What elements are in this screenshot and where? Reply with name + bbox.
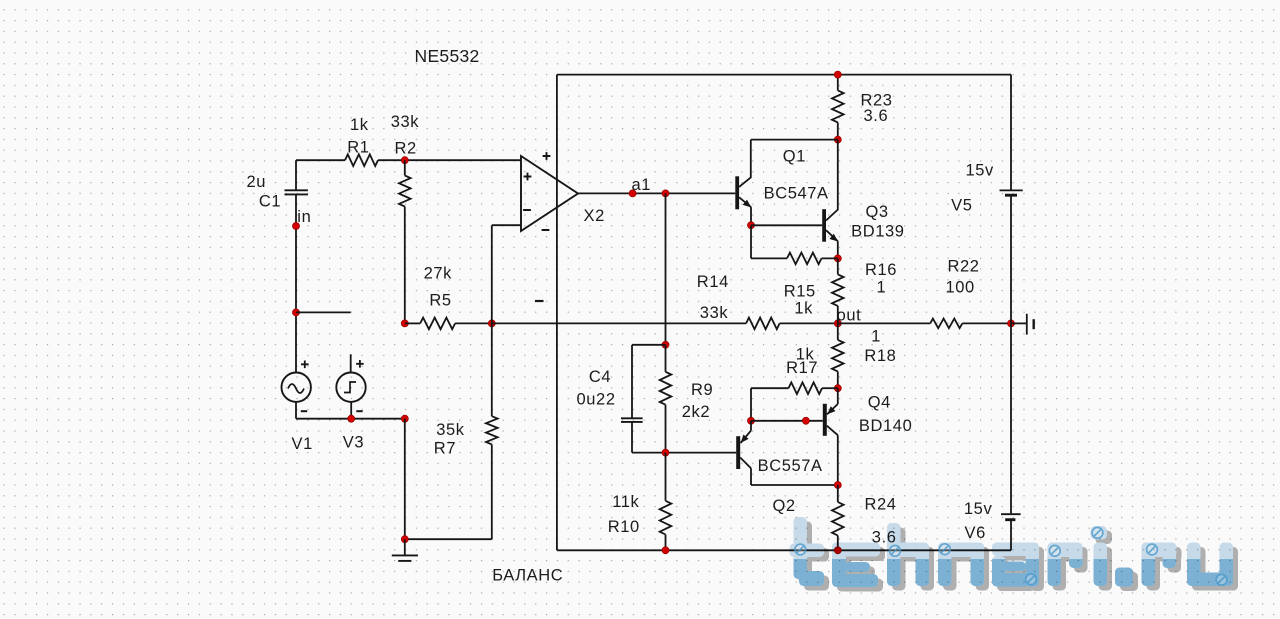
transistor Q4 base bar	[823, 404, 827, 436]
resistor R14	[746, 318, 780, 330]
node R2/R5	[401, 320, 408, 327]
resistor R22	[930, 319, 962, 329]
wire R5 left lead	[405, 322, 420, 324]
wire R23 bottom lead	[837, 122, 839, 139]
plus of V3	[356, 360, 364, 368]
label BALANS	[492, 567, 563, 585]
label V1	[292, 435, 313, 453]
wire Q3 emitter down	[837, 241, 839, 258]
label a1	[632, 176, 652, 194]
wire R17 left vertical	[750, 388, 752, 421]
label R18	[864, 347, 896, 365]
node R22/right rail	[1008, 320, 1015, 327]
svg-text:R7: R7	[434, 440, 456, 458]
label 27k R5	[424, 264, 453, 282]
label 35k R7	[436, 421, 465, 439]
node in	[293, 223, 300, 230]
node R23/Q1 collector	[834, 136, 841, 143]
wire stub to V3	[296, 311, 351, 313]
svg-text:C1: C1	[259, 193, 281, 211]
svg-text:V3: V3	[343, 434, 364, 452]
label C4	[589, 368, 611, 386]
svg-text:V6: V6	[965, 524, 986, 542]
battery V5	[1000, 190, 1023, 195]
wire R15 left lead	[751, 257, 787, 259]
op-amp plus power label	[543, 152, 551, 160]
wire R5 right lead	[455, 322, 492, 324]
node C4/R9 top	[662, 341, 669, 348]
svg-text:R24: R24	[865, 496, 897, 514]
label 33k R2	[391, 113, 420, 131]
node R1/R2 junction	[401, 157, 408, 164]
wire R22 to rail	[962, 322, 1011, 324]
wire V3 plus stub	[350, 354, 352, 372]
wire Q2 collector down	[750, 468, 752, 485]
wire minus input horizontal	[492, 224, 521, 226]
svg-text:R15: R15	[784, 283, 816, 301]
svg-text:R22: R22	[948, 258, 980, 276]
svg-text:R1: R1	[347, 138, 369, 156]
Q2 collector	[740, 458, 751, 469]
svg-text:1k: 1k	[794, 299, 813, 317]
svg-text:0u22: 0u22	[577, 391, 616, 409]
svg-text:X2: X2	[584, 207, 605, 225]
ground symbol	[392, 539, 418, 561]
label out	[837, 307, 862, 325]
wire R7 bottom lead	[491, 444, 493, 539]
svg-text:33k: 33k	[700, 304, 729, 322]
label 2k2	[682, 403, 710, 421]
label V5	[951, 197, 972, 215]
node V-source top	[293, 309, 300, 316]
svg-text:2u: 2u	[247, 173, 267, 191]
wire Q3 base	[751, 224, 822, 226]
wire top supply rail	[557, 74, 1011, 76]
svg-text:BD139: BD139	[851, 223, 904, 241]
node C4/R9 bottom Q2 base	[662, 449, 669, 456]
wire mid column	[404, 419, 406, 540]
Q3 emitter	[826, 230, 838, 241]
label 1k R17	[796, 346, 815, 364]
node on Q4 base wire	[802, 417, 809, 424]
wire Q2 emitter top	[750, 421, 752, 431]
svg-text:27k: 27k	[424, 264, 453, 282]
op-amp plus input label	[524, 173, 532, 181]
node output branch	[662, 190, 669, 197]
wire R23 top lead	[837, 75, 839, 91]
wire C4 top horizontal	[632, 344, 666, 346]
Q4 emitter	[827, 388, 838, 414]
label 15v V5	[966, 162, 995, 180]
node out	[834, 320, 841, 327]
source V1 sine	[282, 373, 311, 402]
wire sources bottom	[296, 418, 405, 420]
resistor R2 vertical	[399, 176, 411, 207]
label BC547A	[764, 185, 829, 203]
label 1 R16	[877, 279, 887, 297]
label in	[297, 208, 311, 226]
label R5	[429, 291, 451, 309]
label Q4	[868, 394, 891, 412]
wire Q4 base	[751, 420, 823, 422]
label Q2	[773, 497, 796, 515]
label R16	[865, 261, 897, 279]
label 0u22	[577, 391, 616, 409]
op-amp minus input label	[523, 209, 531, 211]
svg-text:in: in	[297, 208, 311, 226]
wire bottom supply rail	[557, 549, 1011, 551]
wire to output port	[1011, 322, 1026, 324]
resistor R5	[420, 318, 455, 330]
wire left box edge	[556, 75, 558, 551]
svg-text:35k: 35k	[436, 421, 465, 439]
label R7	[434, 440, 456, 458]
output port symbol	[1027, 314, 1034, 335]
Q4 collector	[827, 426, 838, 436]
wire R24 top lead	[837, 485, 839, 502]
node rail/R23	[834, 71, 841, 78]
node R10/bottom rail	[662, 547, 669, 554]
svg-text:C4: C4	[589, 368, 611, 386]
svg-text:BD140: BD140	[859, 417, 912, 435]
watermark no-symbols	[795, 527, 1227, 585]
svg-text:Q4: Q4	[868, 394, 891, 412]
svg-text:V5: V5	[951, 197, 972, 215]
node Q2/Q4 collectors R24	[834, 482, 841, 489]
resistor R10 vertical	[660, 501, 672, 535]
floating minus label	[535, 300, 544, 302]
wire R17 right lead	[822, 387, 838, 389]
node R18/R17/Q4 emitter	[834, 385, 841, 392]
transistor Q2 base bar	[736, 436, 740, 469]
wire Q1 emitter down	[750, 207, 752, 225]
wire Q2 base	[666, 452, 737, 454]
svg-text:R17: R17	[786, 359, 818, 377]
watermark tehnari.ru letters	[790, 517, 1234, 587]
label Q1	[783, 148, 806, 166]
svg-text:NE5532: NE5532	[415, 46, 480, 66]
wire R16 bottom lead	[837, 306, 839, 324]
svg-text:R18: R18	[864, 347, 896, 365]
wire R2 bottom lead	[404, 207, 406, 324]
wire C1 top lead	[295, 160, 297, 190]
label BD140	[859, 417, 912, 435]
label R23	[861, 92, 893, 110]
wire right rail top	[1010, 75, 1012, 190]
label 3.6 R24	[872, 528, 897, 546]
node sources/ground column	[401, 415, 408, 422]
wire node to op-amp plus input	[405, 159, 521, 161]
wire R10 top lead	[665, 453, 667, 501]
svg-text:3.6: 3.6	[864, 107, 889, 125]
resistor R15	[787, 253, 822, 265]
wire R15 right lead	[822, 257, 838, 259]
wire R2 top lead	[404, 160, 406, 175]
label BD139	[851, 223, 904, 241]
svg-text:R5: R5	[429, 291, 451, 309]
node a1	[629, 190, 636, 197]
wire V6 to bottom rail	[1010, 521, 1012, 551]
wire output branch down	[665, 193, 667, 344]
op-amp minus power label	[542, 229, 550, 231]
svg-text:15v: 15v	[966, 162, 995, 180]
label X2	[584, 207, 605, 225]
wire V5 to R22 node	[1010, 196, 1012, 323]
resistor R9	[660, 372, 672, 405]
node R5/R7/minus-input	[488, 320, 495, 327]
wire C4 top lead	[631, 345, 633, 418]
capacitor C4	[621, 418, 643, 422]
svg-text:R16: R16	[865, 261, 897, 279]
wire Q1 collector to R23 node	[751, 139, 838, 141]
wire V1 bottom	[295, 402, 297, 419]
svg-text:15v: 15v	[964, 500, 993, 518]
resistor R1	[345, 154, 378, 166]
label C1	[259, 193, 281, 211]
wire Q2 collector to R24 node	[751, 484, 838, 486]
node Q1 emitter/Q3 base	[748, 222, 755, 229]
resistor R17	[789, 382, 823, 394]
label R17	[786, 359, 818, 377]
svg-text:R10: R10	[608, 518, 640, 536]
label 2u	[247, 173, 267, 191]
wire C4 bottom horizontal	[632, 452, 666, 454]
Q3 collector	[826, 140, 838, 221]
label 15v V6	[964, 500, 993, 518]
wire R18 bottom lead	[837, 371, 839, 388]
battery V6	[1001, 514, 1021, 520]
resistor R23	[832, 90, 844, 122]
svg-text:Q1: Q1	[783, 148, 806, 166]
node Q3 emitter/R15/R16	[834, 255, 841, 262]
wire right rail mid	[1010, 323, 1012, 513]
label R2	[395, 140, 417, 158]
label R14	[697, 273, 729, 291]
svg-text:БАЛАНС: БАЛАНС	[492, 567, 563, 585]
resistor R16	[832, 274, 844, 306]
minus of V1	[301, 410, 307, 412]
resistor R7 vertical	[486, 416, 498, 444]
plus of V1	[301, 361, 309, 369]
wire feedback to R14	[492, 322, 746, 324]
Q1 emitter	[739, 197, 751, 207]
label 3.6 R23	[864, 107, 889, 125]
node R24/bottom rail	[834, 547, 841, 554]
svg-text:R9: R9	[691, 381, 713, 399]
label R10	[608, 518, 640, 536]
label R22	[948, 258, 980, 276]
svg-text:11k: 11k	[612, 493, 639, 511]
wire minus input vertical	[491, 225, 493, 416]
svg-text:V1: V1	[292, 435, 313, 453]
svg-text:Q2: Q2	[773, 497, 796, 515]
label 11k	[612, 493, 639, 511]
wire R7 to ground node	[405, 538, 492, 540]
wire R10 bottom lead	[665, 535, 667, 551]
label R1	[347, 138, 369, 156]
wire R16 top lead	[837, 258, 839, 274]
label 1k R1	[350, 116, 369, 134]
svg-text:100: 100	[946, 278, 975, 296]
label R24	[865, 496, 897, 514]
wire out to R22	[838, 322, 930, 324]
label 33k R14	[700, 304, 729, 322]
Q1 collector	[739, 140, 751, 187]
wire R17 left lead	[751, 387, 789, 389]
wire R1 to node	[378, 159, 405, 161]
wire C1 to V1	[295, 194, 297, 372]
wire R24 bottom lead	[837, 536, 839, 551]
node ground junction	[401, 536, 408, 543]
label 1 R18	[871, 328, 881, 346]
wire input top	[296, 159, 345, 161]
transistor Q1 base bar	[735, 176, 739, 209]
svg-text:1k: 1k	[350, 116, 369, 134]
svg-text:out: out	[837, 307, 862, 325]
minus of V3	[356, 410, 362, 412]
svg-text:1: 1	[877, 279, 887, 297]
wire Q4 collector down	[837, 435, 839, 485]
wire R9 top lead	[665, 345, 667, 372]
wire op-amp output	[578, 192, 735, 194]
Q2 emitter	[741, 431, 752, 443]
source V3 pulse	[336, 373, 365, 402]
svg-text:BC547A: BC547A	[764, 185, 829, 203]
label BC557A	[758, 457, 823, 475]
label NE5532	[415, 46, 480, 66]
wire R18 top lead	[837, 323, 839, 340]
label 100	[946, 278, 975, 296]
label R9	[691, 381, 713, 399]
wire V3 bottom	[350, 402, 352, 419]
resistor R24	[832, 502, 844, 536]
svg-text:Q3: Q3	[866, 203, 889, 221]
label Q3	[866, 203, 889, 221]
label 1k R15	[794, 299, 813, 317]
node V3 bottom	[348, 415, 355, 422]
resistor R18	[832, 340, 844, 372]
op-amp U1 X2	[521, 156, 578, 231]
wire C4 bottom lead	[631, 422, 633, 453]
wire R15 left vertical	[750, 225, 752, 258]
wire R14 to out	[780, 322, 838, 324]
svg-text:R2: R2	[395, 140, 417, 158]
label R15	[784, 283, 816, 301]
transistor Q3 base bar	[822, 209, 826, 242]
label V3	[343, 434, 364, 452]
label V6	[965, 524, 986, 542]
node Q2 emitter/Q4 base wire	[748, 417, 755, 424]
svg-text:33k: 33k	[391, 113, 420, 131]
svg-text:2k2: 2k2	[682, 403, 710, 421]
svg-text:1: 1	[871, 328, 881, 346]
capacitor C1	[285, 190, 308, 194]
svg-text:R14: R14	[697, 273, 729, 291]
svg-text:BC557A: BC557A	[758, 457, 823, 475]
wire R9 bottom lead	[665, 405, 667, 453]
svg-text:a1: a1	[632, 176, 652, 194]
